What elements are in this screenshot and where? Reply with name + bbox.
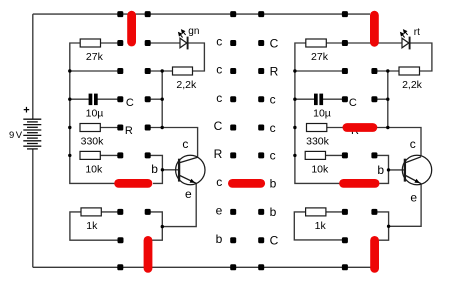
node contact A row71 xyxy=(117,68,123,74)
svg-text:C: C xyxy=(349,97,357,109)
node contact F row211 xyxy=(371,209,377,215)
wire 10k right lead to contact E5 xyxy=(325,154,345,156)
wire 1k left loop to contact A8 xyxy=(70,212,121,240)
wire emitter tie to bottom red link xyxy=(150,227,162,241)
node contact A row127 xyxy=(117,125,123,131)
node contact A row267 xyxy=(117,264,123,270)
node contact F row99 xyxy=(371,96,377,102)
node contact E row99 xyxy=(342,96,348,102)
svg-text:e: e xyxy=(216,204,223,218)
jumper link bottom right vertical xyxy=(370,240,379,268)
node dot bus2 row 71 xyxy=(161,69,164,72)
node contact B row211 xyxy=(145,209,151,215)
node contact E row14 xyxy=(342,11,348,17)
node dot bus row 71 xyxy=(68,69,71,72)
wire left bus vertical (27k/cap/330k/10k common) xyxy=(70,43,115,183)
wire emitter net Q1 xyxy=(151,183,197,227)
node contact C row240 xyxy=(230,237,236,243)
LED rt symbol xyxy=(402,37,410,50)
capacitor C2 10µ plates xyxy=(314,94,323,106)
jumper link top left vertical xyxy=(127,15,136,42)
node contact B row71 xyxy=(145,68,151,74)
wire base net from contact F5 down to red link xyxy=(374,155,388,183)
node dot bus row 127 xyxy=(68,126,71,129)
wire cap right block left lead xyxy=(295,98,314,100)
transistor Q2 xyxy=(402,155,431,184)
node dot emitter corner Q2 xyxy=(387,225,390,228)
node contact D row240 xyxy=(258,237,264,243)
resistor 10k right xyxy=(305,151,325,159)
svg-text:rt: rt xyxy=(414,27,420,38)
svg-text:R: R xyxy=(214,147,223,161)
capacitor C1 10µ plates xyxy=(89,94,98,106)
node contact A row99 xyxy=(117,96,123,102)
LED rt arrows xyxy=(401,30,408,38)
wire cap right lead to contact A3 xyxy=(97,98,120,100)
node contact D row43 xyxy=(258,40,264,46)
wire bus2 vertical collector net xyxy=(161,71,163,128)
wire 330k right lead to contact E4 xyxy=(327,127,346,129)
wire 1k right lead to contact A7 xyxy=(101,211,120,213)
node contact B row43 xyxy=(145,40,151,46)
svg-text:c: c xyxy=(270,149,276,163)
node contact C row14 xyxy=(230,11,236,17)
wire LED gn anode from contact B1 xyxy=(148,42,180,44)
node dot right bus2 row 71 xyxy=(386,69,389,72)
battery 9V xyxy=(23,119,41,149)
wire 1k right block right lead to contact E7 xyxy=(326,211,345,213)
jumper link right row183 horizontal xyxy=(344,179,376,188)
node dot base tap Q1 xyxy=(161,168,164,171)
node contact B row99 xyxy=(145,96,151,102)
node contact A row155 xyxy=(117,152,123,158)
svg-text:9: 9 xyxy=(9,130,14,141)
wire row 71 bus to contact A2 xyxy=(70,70,121,72)
jumper link left row183 horizontal xyxy=(119,179,148,188)
svg-text:c: c xyxy=(270,121,276,135)
resistor 1k left xyxy=(81,208,101,216)
node contact C row127 xyxy=(230,125,236,131)
svg-text:C: C xyxy=(214,119,223,133)
jumper link right row127 horizontal xyxy=(347,123,373,132)
node contact E row43 xyxy=(342,40,348,46)
node dot right bus2 row 99 xyxy=(386,98,389,101)
wire 27k right lead to contact E1 xyxy=(326,42,345,44)
node contact E row71 xyxy=(342,68,348,74)
wire 330k right lead to contact A4 xyxy=(100,127,120,129)
resistor 2,2k left xyxy=(173,67,193,75)
wire battery minus to bottom rail xyxy=(32,149,34,267)
svg-text:2,2k: 2,2k xyxy=(402,79,423,91)
svg-text:b: b xyxy=(270,177,277,191)
node contact D row14 xyxy=(258,11,264,17)
svg-text:b: b xyxy=(377,163,384,177)
svg-text:330k: 330k xyxy=(81,136,105,148)
svg-text:c: c xyxy=(216,91,222,105)
svg-text:R: R xyxy=(125,125,133,137)
svg-text:c: c xyxy=(182,137,188,151)
LED gn symbol xyxy=(180,37,188,50)
svg-text:10µ: 10µ xyxy=(313,107,331,119)
node contact A row14 xyxy=(117,11,123,17)
node contact C row211 xyxy=(230,209,236,215)
resistor 10k left xyxy=(80,151,100,159)
node contact B row127 xyxy=(145,125,151,131)
wire bus2 right vertical collector net xyxy=(387,71,389,128)
node contact A row211 xyxy=(117,209,123,215)
svg-text:330k: 330k xyxy=(306,136,330,148)
wire emitter net Q2 xyxy=(377,184,421,227)
node contact C row267 xyxy=(230,264,236,270)
node contact F row71 xyxy=(371,68,377,74)
svg-text:2,2k: 2,2k xyxy=(176,79,197,91)
svg-text:gn: gn xyxy=(188,26,199,37)
wire top supply rail xyxy=(33,13,370,15)
node contact B row155 xyxy=(145,152,151,158)
node contact D row211 xyxy=(258,209,264,215)
wire LED rt cathode to 2,2k right lead xyxy=(410,43,432,71)
svg-text:27k: 27k xyxy=(86,51,104,63)
wire emitter tie to bottom red link right xyxy=(378,226,389,240)
node dot right bus row 99 xyxy=(293,98,296,101)
node contact D row99 xyxy=(258,96,264,102)
wire LED rt anode from red link F1 xyxy=(378,42,402,44)
node dot right bus row 127 xyxy=(293,126,296,129)
wire 10k right lead to contact A5 xyxy=(100,154,120,156)
svg-text:e: e xyxy=(185,187,192,201)
node dot right bus row 155 xyxy=(293,154,296,157)
svg-text:C: C xyxy=(270,234,279,248)
wire contact F2 to bus2 right xyxy=(374,70,399,72)
node contact D row71 xyxy=(258,68,264,74)
wire row 71 bus to contact E2 xyxy=(295,70,345,72)
wire 27k right lead to contact A1 xyxy=(101,42,121,44)
node contact A row240 xyxy=(118,237,124,243)
svg-text:c: c xyxy=(216,175,222,189)
svg-text:C: C xyxy=(270,36,279,50)
svg-text:10µ: 10µ xyxy=(86,107,104,119)
wire collector drop from row 127 right xyxy=(373,128,421,157)
svg-text:b: b xyxy=(270,205,277,219)
node contact D row127 xyxy=(258,125,264,131)
wire collector drop from row 127 xyxy=(148,128,198,157)
svg-text:1k: 1k xyxy=(315,220,327,232)
svg-text:b: b xyxy=(151,162,158,176)
wire contact B3 to bus2 xyxy=(148,98,163,100)
wire bottom ground rail xyxy=(33,266,371,268)
resistor 27k left xyxy=(80,39,100,47)
svg-text:e: e xyxy=(410,191,417,205)
node contact D row155 xyxy=(258,152,264,158)
wire contact B2 to node bus2 xyxy=(148,70,173,72)
svg-text:c: c xyxy=(410,137,416,151)
jumper link bottom left vertical xyxy=(144,240,153,268)
wire LED gn cathode to 2,2k right lead xyxy=(187,43,204,71)
wire right bus vertical (27k/cap/330k/10k common) xyxy=(295,43,340,183)
node contact E row240 xyxy=(342,237,348,243)
node dot right bus2 row 127 xyxy=(386,126,389,129)
node contact E row155 xyxy=(342,152,348,158)
svg-text:10k: 10k xyxy=(85,164,103,176)
node dot bus2 row 127 xyxy=(161,126,164,129)
wire left vertical from top rail to battery plus xyxy=(32,14,34,119)
wire base lead Q1 xyxy=(162,169,179,171)
transistor Q1 xyxy=(176,155,205,184)
svg-text:c: c xyxy=(270,93,276,107)
svg-text:R: R xyxy=(270,64,279,78)
resistor 2,2k right xyxy=(399,67,420,75)
node contact C row155 xyxy=(230,152,236,158)
svg-text:V: V xyxy=(16,130,23,141)
wire base net from contact B5 down to red link xyxy=(148,155,163,183)
svg-text:b: b xyxy=(216,232,223,246)
svg-text:1k: 1k xyxy=(86,220,98,232)
node dot bus row 99 xyxy=(68,98,71,101)
node contact F row155 xyxy=(371,152,377,158)
svg-text:10k: 10k xyxy=(311,164,329,176)
jumper link top right vertical xyxy=(370,15,379,42)
LED gn arrows xyxy=(179,30,186,38)
node contact B row14 xyxy=(145,11,151,17)
jumper link middle row183 horizontal xyxy=(232,179,260,188)
resistor 330k left xyxy=(80,124,100,132)
resistor 330k right xyxy=(307,124,327,132)
node dot base tap Q2 xyxy=(387,168,390,171)
svg-text:27k: 27k xyxy=(311,51,329,63)
svg-text:c: c xyxy=(216,63,222,77)
wire contact E1 to red link F1 xyxy=(345,42,371,44)
wire base lead Q2 xyxy=(389,169,406,171)
node dot right bus row 71 xyxy=(293,69,296,72)
wire contact F3 to bus2 right xyxy=(374,98,387,100)
node contact E row211 xyxy=(342,209,348,215)
wire cap left lead xyxy=(70,98,89,100)
svg-text:+: + xyxy=(23,104,29,116)
node contact C row71 xyxy=(230,68,236,74)
resistor 1k right xyxy=(306,208,326,216)
node contact C row99 xyxy=(230,96,236,102)
svg-text:c: c xyxy=(216,35,222,49)
node dot bus2 row 99 xyxy=(161,98,164,101)
resistor 27k right xyxy=(306,39,327,47)
node contact D row267 xyxy=(258,264,264,270)
node contact A row43 xyxy=(117,40,123,46)
wire cap right block right lead to contact E3 xyxy=(323,98,345,100)
node contact E row267 xyxy=(342,264,348,270)
node dot bus row 155 xyxy=(68,154,71,157)
svg-text:C: C xyxy=(126,97,134,109)
node contact C row43 xyxy=(230,40,236,46)
node dot emitter corner Q1 xyxy=(161,225,164,228)
wire 1k right block left loop to contact E8 xyxy=(294,212,345,240)
